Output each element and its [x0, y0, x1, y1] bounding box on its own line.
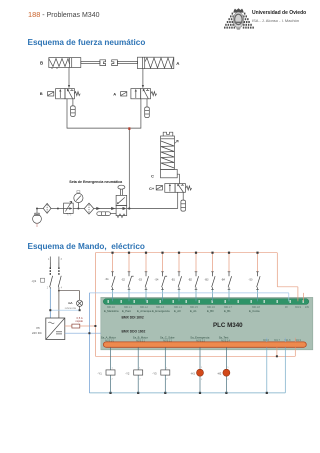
PLC output terminal bar: [103, 342, 306, 347]
supply bus to valves A and B: [67, 103, 141, 129]
power supply unit: [46, 318, 65, 340]
svg-text:-S2: -S2: [121, 278, 126, 281]
spare wire stubs above output bar: [267, 338, 296, 342]
svg-text:A: A: [113, 92, 116, 97]
svg-text:E_Maniobra: E_Maniobra: [104, 309, 119, 313]
cylinder C: [161, 132, 179, 178]
svg-text:Sa_Test: Sa_Test: [219, 336, 229, 340]
svg-text:-S0: -S0: [249, 278, 254, 281]
svg-text:1: 1: [201, 367, 203, 369]
svg-text:-B1: -B1: [171, 278, 176, 281]
contact to PLC wires: [113, 290, 258, 302]
wire cylinder C to valve C+: [177, 174, 179, 183]
valve A solenoid: [121, 92, 127, 96]
svg-text:referencia: referencia: [65, 307, 77, 310]
PNEUMATIC SECTION: [33, 57, 192, 227]
svg-text:-B4: -B4: [221, 278, 226, 281]
valve C+ 3/2 body: [165, 184, 186, 193]
input name labels: [104, 309, 260, 313]
cylinder B: [49, 58, 106, 69]
junction dot supply: [57, 208, 59, 210]
contact terminal ticks: [111, 272, 259, 290]
contact drop wires: [113, 253, 258, 272]
university crest logo: [224, 8, 254, 30]
svg-text:-Y1: -Y1: [98, 371, 103, 375]
valve B spring: [74, 92, 80, 96]
label Q1: [32, 278, 45, 283]
pressure gauge: [74, 191, 83, 210]
svg-text:A: A: [176, 61, 180, 66]
label fuse: [76, 316, 84, 323]
svg-text:2: 2: [201, 379, 203, 381]
svg-text:1: 1: [166, 368, 168, 370]
svg-text:E_Paro: E_Paro: [122, 309, 131, 313]
svg-text:%I0.1.4: %I0.1.4: [174, 307, 183, 309]
ELECTRICAL SECTION: [32, 252, 313, 394]
svg-text:C: C: [151, 173, 154, 178]
svg-text:%I1.9: %I1.9: [295, 307, 302, 309]
svg-text:-S3: -S3: [138, 278, 143, 281]
svg-text:%I0.1.2: %I0.1.2: [140, 307, 149, 309]
0V line above PLC: [89, 293, 288, 301]
svg-text:BMX DDI 1602: BMX DDI 1602: [122, 315, 144, 319]
svg-text:%I0.1.3: %I0.1.3: [156, 307, 165, 309]
0V link lamp to pole1: [50, 309, 79, 311]
svg-text:-H1: -H1: [191, 371, 196, 375]
svg-text:-B2: -B2: [188, 278, 193, 281]
svg-text:E_Conta: E_Conta: [249, 309, 260, 313]
0V vertical rail: [88, 293, 90, 393]
output name labels: [101, 336, 229, 340]
section title electric: [28, 242, 145, 251]
wire pole1 down (blue): [49, 289, 51, 319]
arrow into emergency valve: [111, 207, 115, 210]
svg-text:24V DC: 24V DC: [32, 331, 42, 335]
svg-text:1: 1: [48, 258, 50, 261]
svg-text:1: 1: [112, 368, 114, 370]
valve B solenoid: [48, 92, 54, 96]
pressure regulator: [64, 201, 74, 215]
junction dots left column: [49, 309, 80, 311]
svg-text:2: 2: [139, 379, 141, 381]
svg-text:1: 1: [139, 368, 141, 370]
svg-text:BMX DDO 1602: BMX DDO 1602: [122, 329, 146, 333]
valve A spring: [151, 92, 157, 96]
svg-text:-H2: -H2: [217, 371, 222, 375]
flow arrow on supply line: [96, 207, 100, 210]
riser from main line to valve bus: [128, 130, 130, 210]
breaker Q1 pole 1: [47, 263, 53, 290]
wire cylinder B to valve B: [68, 68, 70, 89]
coil Y3: [152, 368, 170, 381]
bottom bus junction dots: [109, 392, 268, 394]
svg-text:-S4: -S4: [155, 278, 160, 281]
wire pole2 down (dark): [58, 289, 80, 319]
output drop wires: [111, 347, 227, 393]
svg-text:%I0.1.7: %I0.1.7: [224, 307, 233, 309]
page header text: [28, 10, 99, 19]
fuse 0,5A: [65, 324, 97, 328]
svg-text:2: 2: [112, 379, 114, 381]
svg-text:2: 2: [47, 288, 49, 290]
svg-text:%I0.1.0: %I0.1.0: [107, 307, 116, 309]
valve C+ solenoid: [156, 185, 162, 190]
output address labels: [105, 340, 302, 342]
valve C+ spring: [186, 186, 192, 190]
svg-text:E_A1: E_A1: [190, 309, 197, 313]
+24V top bus: [95, 253, 295, 357]
label PSU: [32, 326, 42, 335]
valve C+ supply riser: [177, 192, 179, 208]
lamp H2: [217, 367, 230, 381]
valve A exhaust muffler: [145, 99, 150, 118]
svg-text:3: 3: [61, 258, 63, 261]
coil Y2: [125, 368, 143, 381]
PLC module body: [101, 297, 313, 349]
emergency mushroom valve: [116, 185, 127, 217]
compressor: [33, 208, 42, 228]
svg-text:Sa_C_Sube: Sa_C_Sube: [160, 336, 175, 340]
top bus junction dots: [111, 252, 258, 254]
svg-text:B: B: [40, 91, 43, 96]
svg-text:%I0.1.6: %I0.1.6: [207, 307, 216, 309]
svg-text:E_Arranque: E_Arranque: [137, 309, 152, 313]
PSU 0V output: [65, 332, 101, 334]
svg-text:E_B1: E_B1: [224, 309, 231, 313]
PLC input terminal strip: [103, 299, 308, 305]
svg-text:%I0.1.5: %I0.1.5: [190, 307, 199, 309]
exhaust silencer (emergency valve): [97, 212, 116, 216]
svg-text:Seta de Emergencia neumática: Seta de Emergencia neumática: [69, 180, 123, 184]
wire cylinder A to valve A: [142, 69, 144, 89]
red junction mark: [128, 127, 130, 130]
svg-text:-Q1: -Q1: [32, 279, 37, 283]
svg-text:B: B: [40, 61, 43, 66]
svg-text:E_Emergencia: E_Emergencia: [152, 309, 170, 313]
cylinder A: [112, 57, 174, 68]
valve A supply stub: [140, 99, 142, 103]
svg-text:0V: 0V: [285, 307, 288, 309]
contact labels: [105, 278, 253, 281]
svg-text:PLC M340: PLC M340: [213, 322, 243, 329]
svg-text:mA: mA: [68, 301, 73, 305]
svg-text:2: 2: [227, 379, 229, 381]
university subtitle: [252, 18, 299, 23]
valve B 3/2 body: [56, 89, 75, 99]
lamp H1: [191, 367, 204, 381]
svg-text:%I0.1.1: %I0.1.1: [124, 307, 133, 309]
svg-text:-B3: -B3: [205, 278, 210, 281]
svg-text:Ph: Ph: [37, 326, 41, 330]
mains stub N: [59, 257, 63, 263]
svg-text:2: 2: [166, 379, 168, 381]
valve C+ exhaust muffler: [181, 192, 186, 211]
svg-text:1: 1: [227, 367, 229, 369]
central oval medallion: [233, 12, 243, 30]
left triangle of dots: [224, 13, 235, 29]
+24V right feed to PLC: [277, 253, 303, 302]
valve A 3/2 body: [131, 89, 151, 99]
input address labels: [107, 307, 310, 309]
mains stub L: [48, 257, 50, 263]
svg-text:4: 4: [61, 288, 63, 290]
svg-text:C+: C+: [149, 186, 155, 191]
university name: [252, 10, 306, 16]
crown: [233, 8, 243, 12]
valve B supply stub: [66, 99, 68, 103]
svg-text:24V: 24V: [305, 307, 310, 309]
svg-text:Sa_A_Motor: Sa_A_Motor: [101, 336, 116, 340]
svg-text:-Y3: -Y3: [152, 371, 157, 375]
svg-text:E_B0: E_B0: [207, 309, 214, 313]
svg-text:-S1: -S1: [105, 278, 110, 281]
section title pneumatic: [28, 38, 146, 47]
breaker Q1 pole 2: [58, 263, 63, 290]
svg-text:-Y2: -Y2: [125, 371, 130, 375]
mA indicator lamp: [77, 300, 83, 310]
svg-text:Sa_B_Motor: Sa_B_Motor: [133, 336, 148, 340]
filter F2: [84, 203, 94, 214]
svg-text:Sa_Emergencia: Sa_Emergencia: [190, 336, 210, 340]
0V bottom bus: [89, 347, 285, 393]
coil Y1: [98, 368, 116, 381]
+24V frame risers to output bar: [276, 347, 295, 357]
right triangle of dots: [242, 13, 254, 29]
input contacts S1..S4 B1..B4: [112, 272, 261, 290]
valve B exhaust muffler: [71, 99, 76, 117]
svg-text:%I0.1.8: %I0.1.8: [252, 307, 261, 309]
svg-text:rápido: rápido: [76, 319, 84, 323]
svg-text:E_A0: E_A0: [174, 309, 181, 313]
main supply line: [37, 208, 178, 210]
label mA: [65, 301, 77, 310]
filter F1: [43, 203, 51, 213]
